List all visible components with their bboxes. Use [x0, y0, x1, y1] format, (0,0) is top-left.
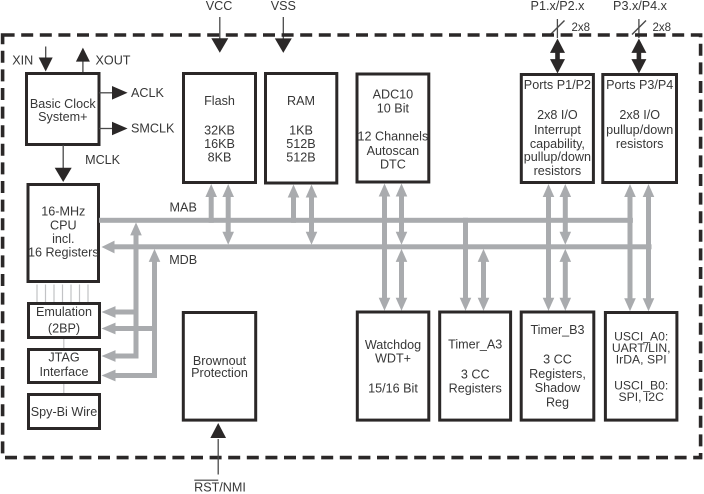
wire PortsP3P4-MDB-USCI line [643, 184, 655, 311]
label MDB [169, 253, 197, 267]
bus MAB horizontal [99, 218, 633, 223]
wire MDB-JTAG vertical branch [149, 249, 161, 378]
text Brownout Protection [191, 354, 248, 380]
block 16-MHz CPU [28, 185, 99, 282]
svg-text:Protection: Protection [191, 366, 248, 380]
overline RST [194, 480, 218, 481]
wire ACLK output [99, 86, 128, 100]
svg-text:CPU: CPU [50, 218, 77, 232]
text JTAG Interface [39, 351, 88, 379]
svg-text:2x8: 2x8 [653, 22, 672, 34]
text Ports P3/P4 details [606, 78, 673, 151]
label P3.x/P4.x pins [613, 0, 668, 13]
svg-text:Registers,: Registers, [529, 367, 586, 381]
text Ports P1/P2 details [524, 78, 591, 178]
block ADC10 [357, 74, 429, 182]
wire ADC10-MDB tap [396, 184, 408, 245]
wire MAB-TimerA3 line [460, 218, 472, 311]
svg-text:15/16 Bit: 15/16 Bit [368, 382, 418, 396]
svg-text:incl.: incl. [52, 232, 74, 246]
svg-text:ADC10: ADC10 [373, 87, 414, 101]
svg-text:Reg: Reg [546, 396, 569, 410]
svg-text:16KB: 16KB [204, 137, 235, 151]
wire arrow into JTAG upper [102, 350, 139, 362]
bus MDB horizontal [102, 241, 652, 254]
label XOUT [96, 54, 131, 68]
svg-text:MDB: MDB [169, 253, 197, 267]
wire SMCLK output [99, 122, 128, 136]
block Flash memory [184, 74, 256, 183]
svg-text:16-MHz: 16-MHz [41, 205, 85, 219]
svg-text:JTAG: JTAG [48, 351, 79, 365]
svg-text:Registers: Registers [449, 382, 502, 396]
label 2x8 width P3/P4 [653, 22, 672, 34]
arrow port P3/P4 bidirectional [631, 39, 646, 74]
svg-text:512B: 512B [286, 137, 315, 151]
label P1.x/P2.x pins [531, 0, 586, 13]
wire arrow into Emulation lower [102, 323, 158, 335]
svg-text:P1.x/P2.x: P1.x/P2.x [531, 0, 586, 13]
svg-text:Watchdog: Watchdog [365, 338, 421, 352]
wire MDB-TimerA3 tap [478, 249, 490, 311]
wire XIN input arrow [39, 47, 53, 72]
svg-text:RST/NMI: RST/NMI [194, 481, 246, 494]
block RAM [266, 74, 337, 184]
wire PortsP3P4-MAB-USCI line [624, 184, 636, 311]
label MCLK [85, 153, 121, 167]
svg-text:2x8 I/O: 2x8 I/O [619, 108, 660, 122]
label XIN [12, 54, 33, 68]
wire RAM-MDB tap [306, 185, 318, 245]
svg-text:VSS: VSS [271, 0, 296, 13]
block Timer_A3 [440, 312, 511, 420]
wire Emulation-JTAG link [63, 339, 64, 348]
svg-text:Timer_B3: Timer_B3 [530, 323, 584, 337]
wire XOUT output arrow [76, 48, 90, 72]
svg-text:VCC: VCC [206, 0, 233, 13]
svg-text:10 Bit: 10 Bit [377, 102, 410, 116]
label 2x8 width P1/P2 [572, 22, 591, 34]
svg-text:pullup/down: pullup/down [606, 123, 673, 137]
svg-text:Shadow: Shadow [535, 381, 581, 395]
svg-text:pullup/down: pullup/down [524, 150, 591, 164]
svg-text:XIN: XIN [12, 54, 33, 68]
block Timer_B3 [521, 312, 594, 420]
svg-text:16 Registers: 16 Registers [28, 245, 99, 259]
wire ADC10-MAB-Watchdog line [379, 184, 391, 311]
wire MCLK to CPU [55, 145, 72, 182]
wire VSS [275, 17, 292, 53]
svg-text:Ports P3/P4: Ports P3/P4 [606, 78, 673, 92]
block Basic Clock System+ [27, 74, 100, 145]
label MAB [170, 201, 197, 215]
svg-text:WDT+: WDT+ [375, 352, 411, 366]
block Watchdog WDT+ [357, 312, 429, 420]
label VCC pin [206, 0, 233, 13]
svg-text:Ports P1/P2: Ports P1/P2 [524, 78, 591, 92]
wire JTAG-SpyBiWire link [63, 384, 64, 393]
svg-text:MCLK: MCLK [85, 153, 121, 167]
svg-text:DTC: DTC [380, 158, 406, 172]
text Spy-Bi Wire [31, 405, 97, 419]
block USCI [605, 313, 677, 421]
block Ports P1/P2 [521, 75, 593, 183]
svg-text:3 CC: 3 CC [461, 368, 490, 382]
svg-text:Interrupt: Interrupt [534, 123, 581, 137]
wire port P3/P4 with 2x8 slash [632, 19, 646, 38]
label VSS pin [271, 0, 296, 13]
svg-text:XOUT: XOUT [96, 54, 131, 68]
svg-text:12 Channels: 12 Channels [358, 129, 429, 143]
svg-text:ACLK: ACLK [131, 86, 164, 100]
svg-text:Timer_A3: Timer_A3 [448, 338, 502, 352]
svg-text:Autoscan: Autoscan [367, 144, 420, 158]
svg-text:2x8: 2x8 [572, 22, 591, 34]
svg-text:1KB: 1KB [289, 124, 313, 138]
label ACLK [131, 86, 164, 100]
wire VCC [211, 17, 228, 53]
wire PortsP1P2-MDB tap [560, 184, 572, 245]
label SMCLK [131, 122, 175, 136]
svg-text:Flash: Flash [204, 94, 235, 108]
svg-text:System+: System+ [38, 110, 87, 124]
text Watchdog details [365, 338, 421, 396]
block Ports P3/P4 [603, 75, 677, 183]
text Timer_B3 details [529, 323, 586, 410]
svg-text:P3.x/P4.x: P3.x/P4.x [613, 0, 668, 13]
wire MDB-Watchdog tap [396, 249, 408, 311]
wire arrow into JTAG lower [102, 370, 158, 382]
svg-text:capability,: capability, [530, 137, 585, 151]
block Emulation (2BP) [29, 304, 100, 338]
svg-text:3 CC: 3 CC [543, 353, 572, 367]
arrow port P1/P2 bidirectional [550, 39, 565, 74]
wire RST/NMI input arrow [210, 423, 226, 475]
svg-text:SMCLK: SMCLK [131, 122, 175, 136]
wire CPU-Emulation parallel links [36, 285, 88, 303]
wire RAM-MAB tap [288, 185, 300, 223]
svg-text:512B: 512B [286, 151, 315, 165]
svg-text:resistors: resistors [616, 137, 664, 151]
svg-text:32KB: 32KB [204, 124, 235, 138]
wire Flash-MDB tap [222, 184, 234, 245]
block Spy-Bi Wire [29, 395, 100, 429]
block Brownout Protection [183, 313, 255, 421]
text USCI details [612, 330, 671, 405]
text Basic Clock System+ [30, 97, 96, 124]
text Timer_A3 details [448, 338, 502, 396]
text Emulation [36, 305, 92, 336]
wire MDB-TimerB3 tap [560, 249, 572, 311]
wire PortsP1P2-MAB-TimerB3 line [543, 184, 555, 311]
wire Flash-MAB tap [205, 184, 217, 223]
svg-text:SPI, I2C: SPI, I2C [619, 390, 665, 404]
text ADC10 details [358, 87, 429, 171]
svg-text:resistors: resistors [534, 164, 582, 178]
text Flash sizes [204, 94, 235, 165]
svg-text:Emulation: Emulation [36, 305, 92, 319]
wire MAB-JTAG vertical branch [130, 222, 142, 358]
svg-text:8KB: 8KB [208, 151, 232, 165]
svg-text:IrDA, SPI: IrDA, SPI [616, 353, 667, 367]
label RST/NMI [194, 481, 246, 494]
svg-text:MAB: MAB [170, 201, 197, 215]
block JTAG Interface [29, 350, 100, 383]
svg-text:Spy-Bi Wire: Spy-Bi Wire [31, 405, 97, 419]
svg-text:Interface: Interface [39, 365, 88, 379]
svg-text:RAM: RAM [287, 94, 315, 108]
text RAM sizes [286, 94, 315, 165]
svg-text:(2BP): (2BP) [48, 322, 80, 336]
text CPU details [28, 205, 99, 260]
svg-text:2x8 I/O: 2x8 I/O [537, 108, 578, 122]
wire arrow into Emulation upper [102, 306, 139, 318]
wire port P1/P2 with 2x8 slash [551, 19, 565, 38]
